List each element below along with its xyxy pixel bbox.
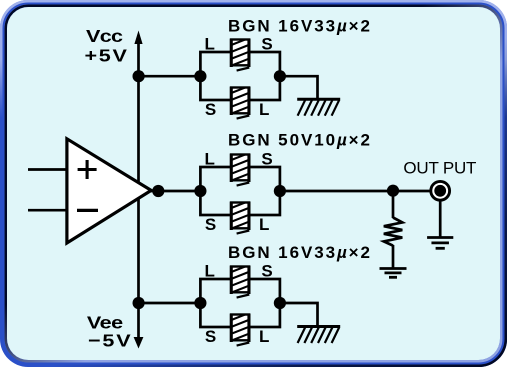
- svg-text:+5V: +5V: [84, 46, 128, 66]
- op-amp non-inverting input wire: [28, 209, 67, 212]
- svg-text:S: S: [205, 327, 216, 346]
- junction dot top group left: [194, 70, 206, 82]
- junction dot middle group right: [274, 185, 286, 197]
- junction dot output node: [387, 185, 399, 197]
- svg-text:L: L: [205, 262, 215, 281]
- capacitor C1: [231, 38, 249, 71]
- capacitor C3: [231, 153, 249, 186]
- junction dot middle group left: [194, 185, 206, 197]
- svg-text:L: L: [259, 215, 269, 234]
- ground (hatched) top: [297, 99, 340, 116]
- wire middle group to output: [280, 190, 431, 193]
- junction dot top group right: [274, 70, 286, 82]
- svg-text:S: S: [261, 35, 272, 54]
- ground (bars) under terminal: [427, 238, 453, 249]
- power rail wire Vcc-Vee: [137, 36, 140, 343]
- svg-text:L: L: [205, 150, 215, 169]
- svg-text:S: S: [261, 150, 272, 169]
- resistor R1: [384, 218, 403, 246]
- Vee arrowhead: [134, 337, 144, 349]
- svg-text:BGN 50V10µ×2: BGN 50V10µ×2: [228, 131, 370, 150]
- svg-text:S: S: [261, 262, 272, 281]
- wire top group to ground: [280, 76, 318, 99]
- op-amp inverting input wire: [28, 168, 67, 171]
- capacitor C4: [231, 201, 249, 234]
- svg-text:BGN 16V33µ×2: BGN 16V33µ×2: [228, 243, 370, 262]
- wire rail to bottom group: [139, 302, 201, 305]
- svg-text:L: L: [205, 35, 215, 54]
- svg-text:S: S: [205, 100, 216, 119]
- capacitor C2: [231, 86, 249, 119]
- svg-text:L: L: [259, 327, 269, 346]
- middle group loop wire: [200, 167, 280, 215]
- svg-text:OUT PUT: OUT PUT: [403, 159, 476, 178]
- ground (hatched) bottom: [297, 327, 340, 344]
- junction dot op-amp output: [152, 185, 164, 197]
- resistor R1 lower wire: [392, 245, 395, 268]
- svg-text:S: S: [205, 215, 216, 234]
- junction dot bottom group left: [194, 297, 206, 309]
- op-amp U1: [67, 139, 151, 243]
- wire terminal to ground: [439, 201, 442, 238]
- wire op-amp output to middle group: [151, 190, 201, 193]
- Vcc arrowhead: [134, 31, 142, 45]
- svg-text:−5V: −5V: [88, 331, 133, 351]
- top group loop wire: [200, 52, 280, 100]
- capacitor C5: [231, 265, 249, 298]
- svg-text:Vcc: Vcc: [86, 27, 123, 47]
- output terminal J1: [431, 181, 450, 200]
- capacitor C6: [231, 313, 249, 346]
- resistor R1 wire: [392, 191, 395, 218]
- wire bottom group to ground: [280, 303, 318, 327]
- svg-text:BGN 16V33µ×2: BGN 16V33µ×2: [228, 16, 370, 35]
- svg-text:L: L: [259, 100, 269, 119]
- junction dot bottom group right: [274, 297, 286, 309]
- bottom group loop wire: [200, 279, 280, 327]
- ground (bars) under resistor: [380, 269, 407, 278]
- junction dot rail top: [133, 70, 145, 82]
- junction dot rail bottom: [133, 297, 145, 309]
- wire rail to top group: [139, 75, 201, 78]
